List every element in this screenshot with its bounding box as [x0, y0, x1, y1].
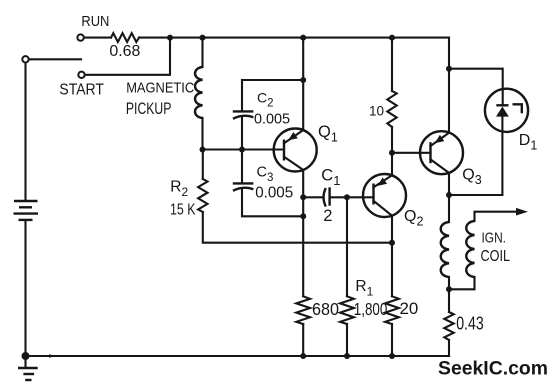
terminal START — [78, 72, 84, 78]
wire switch blade — [29, 58, 81, 60]
wire Q2 collector down — [391, 216, 393, 297]
node junction R2 crossover on Q2 collector — [389, 240, 395, 246]
svg-text:0.68: 0.68 — [109, 43, 140, 60]
node junction START riser on rail — [167, 35, 173, 41]
wire collector to C1 — [303, 196, 323, 198]
wire pickup coil to base node — [201, 118, 203, 150]
node junction Q3 emitter node — [446, 192, 452, 198]
svg-text:2: 2 — [323, 207, 332, 225]
svg-text:IGN.: IGN. — [482, 230, 507, 247]
wire Q1 emitter line — [302, 38, 304, 131]
wire C2 top to Q1 emitter line — [242, 79, 303, 81]
wire rail to pickup coil — [201, 38, 203, 67]
node bottom-left rail junction — [22, 352, 30, 360]
svg-text:0.43: 0.43 — [456, 313, 484, 333]
svg-text:680: 680 — [312, 299, 339, 319]
resistor R1 1800 — [340, 296, 354, 324]
inductor primary coil — [441, 222, 449, 277]
wire battery positive lead — [24, 63, 26, 200]
wire D1 return to Q3 emitter node — [449, 117, 502, 195]
wire Q3 base wire — [392, 152, 431, 154]
wire C2 to C3 — [241, 118, 243, 184]
wire top supply rail — [139, 37, 449, 39]
svg-text:MAGNETIC: MAGNETIC — [126, 80, 194, 97]
resistor 680 — [296, 296, 310, 324]
terminal RUN — [77, 34, 83, 40]
svg-text:PICKUP: PICKUP — [126, 100, 171, 118]
wire 0.43 to ground rail — [448, 340, 450, 356]
inductor magnetic pickup — [195, 67, 203, 118]
capacitor C3 — [233, 183, 254, 190]
node junction 680 on ground rail — [300, 353, 306, 359]
wire R1 line down — [346, 197, 348, 296]
svg-text:0.005: 0.005 — [255, 185, 293, 202]
node base node junction — [200, 147, 206, 153]
transistor Q1 — [274, 129, 317, 172]
wire Q3 emitter down to coil — [448, 173, 450, 222]
resistor 10 — [387, 91, 396, 127]
node junction 10 ohm line on rail — [389, 35, 395, 41]
ground — [18, 356, 38, 380]
wire Q1 collector line down — [302, 170, 304, 296]
wire 10 ohm to Q2 emitter — [391, 127, 393, 175]
wire R1 to ground rail — [346, 324, 348, 356]
node junction Q2 emitter Q3 base — [389, 150, 395, 156]
svg-text:COIL: COIL — [481, 248, 511, 265]
diode D1 — [485, 89, 528, 132]
wire C2 upper lead — [241, 80, 243, 111]
wire coil to 0.43 — [448, 277, 450, 312]
wire R2 to Q2 collector crossover — [203, 212, 392, 243]
capacitor C2 — [233, 111, 254, 118]
wire bottom ground rail — [26, 355, 450, 357]
transistor Q2 — [363, 174, 406, 217]
node junction Q1 emitter line on rail — [300, 35, 306, 41]
svg-text:SeekIC.com: SeekIC.com — [438, 358, 548, 380]
wire rail to 10 ohm — [391, 38, 393, 91]
wire battery negative lead — [24, 221, 26, 356]
arrow mark on ground rail — [49, 354, 56, 358]
node junction coil bottom — [446, 286, 452, 292]
node junction C2 C3 on base wire — [239, 147, 245, 153]
node junction C1 left on collector line — [300, 194, 306, 200]
capacitor C1 — [324, 187, 330, 206]
wire Q1 base wire — [203, 148, 285, 150]
resistor 0.68 — [111, 33, 139, 42]
wire ignition coil output — [475, 212, 517, 221]
battery B1 — [14, 201, 39, 220]
resistor R2 — [198, 179, 207, 212]
svg-text:10: 10 — [369, 103, 384, 119]
svg-text:20: 20 — [400, 300, 419, 318]
wire RUN terminal to resistor — [84, 37, 111, 39]
inductor IGN COIL — [466, 221, 474, 277]
resistor 20 — [385, 296, 399, 324]
svg-text:START: START — [59, 82, 104, 99]
node junction pickup on rail — [200, 35, 206, 41]
svg-text:0.005: 0.005 — [254, 111, 290, 128]
wire base node to R2 — [202, 150, 204, 180]
node junction R1 tap — [344, 194, 350, 200]
svg-text:15 K: 15 K — [170, 202, 196, 219]
wire C3 lower lead and return to collector line — [242, 190, 303, 216]
transistor Q3 — [420, 131, 463, 174]
svg-text:RUN: RUN — [81, 14, 109, 30]
node junction on Q1 emitter line — [300, 77, 306, 83]
node junction R1 on ground rail — [344, 353, 350, 359]
wire START to top rail — [85, 38, 170, 75]
wire 20 to ground rail — [391, 324, 393, 356]
wire to ignition coil secondary — [449, 277, 475, 289]
wire C1 to Q2 base — [330, 196, 374, 198]
svg-text:1,800: 1,800 — [354, 299, 388, 319]
terminal battery switch pole — [22, 56, 28, 62]
node junction C3 return on collector line — [300, 213, 306, 219]
wire 680 to ground rail — [302, 324, 304, 356]
node junction 20 on ground rail — [389, 353, 395, 359]
arrow output — [516, 208, 528, 216]
wire rail to D1 — [449, 69, 503, 105]
node junction D1 tap on right rail — [446, 66, 452, 72]
wire right rail drop to Q3 — [448, 38, 450, 133]
resistor 0.43 — [444, 312, 453, 340]
